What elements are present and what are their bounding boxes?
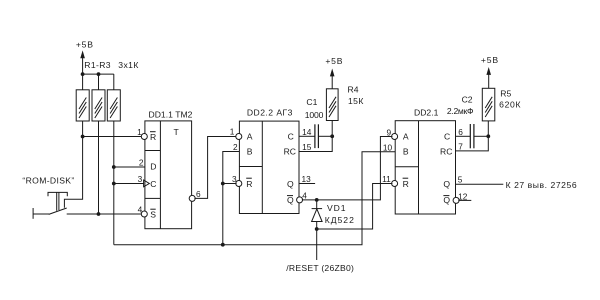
wire R1 top lead [82, 74, 84, 90]
svg-text:+5В: +5В [76, 39, 94, 49]
label S input (inverted) [150, 209, 156, 219]
svg-text:C: C [444, 132, 450, 142]
svg-text:4: 4 [302, 191, 307, 201]
svg-text:R: R [246, 179, 252, 189]
svg-text:Q: Q [443, 179, 450, 189]
svg-text:C: C [150, 179, 156, 189]
svg-text:3x1К: 3x1К [118, 60, 138, 70]
inversion circle DD2.1 pin 9 [392, 134, 398, 140]
svg-text:“ROM-DISK”: “ROM-DISK” [22, 176, 74, 186]
wire DD2.1 pin 5 Q output [456, 183, 504, 185]
svg-text:К 27 выв. 27256: К 27 выв. 27256 [506, 180, 578, 190]
svg-text:R5: R5 [500, 88, 511, 98]
wire DD2.2 pin 2 B down to bus [223, 152, 240, 245]
svg-text:5: 5 [458, 175, 463, 185]
push button SB1 ROM-DISK [33, 192, 67, 218]
svg-text:A: A [247, 132, 253, 142]
svg-text:VD1: VD1 [327, 203, 346, 213]
wire to DD1.1 pin 1 [83, 136, 143, 138]
monostable DD2.2 body [239, 121, 299, 213]
wire DD2.2 pin 4 Q to DD2.1 pin 9 [302, 137, 393, 200]
wire bottom bus [114, 152, 395, 245]
svg-text:C2: C2 [462, 94, 473, 104]
label R input (inverted) [246, 178, 252, 189]
svg-text:B: B [403, 147, 409, 157]
inversion circle DD1.1 pin 6 [189, 195, 195, 201]
svg-text:DD2.1: DD2.1 [414, 108, 439, 118]
svg-text:DD1.1 ТМ2: DD1.1 ТМ2 [149, 110, 193, 120]
resistor R4 [326, 89, 338, 121]
node junction B-vertical / bus [221, 243, 225, 247]
svg-text:6: 6 [458, 127, 463, 137]
svg-text:A: A [403, 132, 409, 142]
node junction B-vertical / R wire [221, 182, 225, 186]
svg-text:RC: RC [440, 147, 452, 157]
wire R4 bottom lead [331, 121, 333, 137]
svg-text:3: 3 [138, 174, 143, 184]
svg-text:+5В: +5В [481, 55, 499, 65]
svg-text:/RESET (26ZВ0): /RESET (26ZВ0) [286, 263, 354, 273]
svg-text:Q: Q [287, 179, 294, 189]
wire button to DD1.1 pin 4 S [67, 213, 143, 215]
svg-text:7: 7 [458, 142, 463, 152]
svg-text:13: 13 [302, 174, 312, 184]
svg-text:C: C [288, 132, 294, 142]
wire DD2.1 pin 7 RC [456, 136, 489, 151]
node junction diode / reset / pin11 [315, 227, 319, 231]
wire R1 bottom lead down to button [64, 121, 82, 208]
svg-text:R: R [403, 179, 409, 189]
wire C1 to RC node [318, 135, 332, 137]
wire +5V top rail [83, 73, 114, 75]
svg-text:10: 10 [383, 142, 393, 152]
capacitor C2 [470, 124, 474, 148]
wire R2 bottom lead [98, 121, 100, 214]
label C clock input with dynamic triangle [144, 179, 157, 189]
label R input (inverted) [403, 178, 409, 189]
node junction C1/R4/pin15 [330, 134, 334, 138]
resistor R2 [92, 90, 105, 121]
svg-text:B: B [247, 147, 253, 157]
svg-text:9: 9 [386, 127, 391, 137]
wire DD1.1 pin 2 D [114, 166, 145, 168]
svg-text:R1-R3: R1-R3 [84, 60, 111, 70]
inversion circle DD2.1 pin 11 [392, 181, 398, 187]
wire R3 top lead [113, 74, 115, 90]
node junction C2/R5/pin7 [486, 134, 490, 138]
wire C2 to RC node [474, 135, 488, 137]
label Q-bar output [287, 195, 294, 205]
svg-text:C1: C1 [306, 97, 317, 107]
inversion circle DD1.1 pin 1 [141, 134, 147, 140]
node junction R1 top [81, 72, 85, 76]
svg-text:Q: Q [287, 195, 294, 205]
capacitor C1 [315, 124, 319, 148]
wire DD2.1 pin 6 to C2 [456, 135, 471, 137]
svg-text:15К: 15К [348, 96, 364, 106]
wire DD2.2 pin 14 to C1 [299, 135, 315, 137]
svg-text:2: 2 [233, 142, 238, 152]
svg-text:14: 14 [302, 127, 312, 137]
resistor R5 [482, 88, 495, 121]
diode VD1 [312, 200, 323, 260]
svg-text:Q: Q [443, 195, 450, 205]
inversion circle DD2.2 pin 4 [297, 197, 303, 203]
wire R5 bottom lead [487, 121, 489, 136]
svg-text:КД522: КД522 [325, 215, 355, 225]
node junction R3 / D wire [112, 165, 116, 169]
wire DD1.1 pin 6 to DD2.2 pin 1 [194, 137, 236, 199]
inversion circle DD1.1 pin 4 [141, 211, 147, 217]
svg-text:1: 1 [230, 126, 235, 136]
inversion circle DD2.2 pin 3 [236, 181, 242, 187]
wire R2 top lead [98, 74, 100, 90]
svg-text:1000: 1000 [305, 110, 324, 120]
monostable DD2.1 body [395, 121, 455, 214]
wire DD2.1 pin 12 Q stub [458, 199, 471, 201]
svg-text:2.2мкФ: 2.2мкФ [447, 106, 474, 116]
svg-text:RC: RC [284, 147, 296, 157]
power +5V symbol middle [325, 56, 343, 89]
svg-text:T: T [174, 127, 180, 137]
node junction R2 / S wire [97, 212, 101, 216]
svg-text:S: S [150, 210, 156, 220]
node junction R1 / DD1.1 pin1 [81, 135, 85, 139]
svg-text:11: 11 [382, 174, 391, 184]
wire DD1.1 pin 3 C [114, 183, 144, 185]
resistor R3 [107, 90, 120, 121]
svg-text:DD2.2 АГ3: DD2.2 АГ3 [247, 108, 293, 118]
wire DD2.2 pin 13 Q stub [299, 183, 315, 185]
wire R3 bottom lead [113, 121, 115, 245]
svg-text:+5В: +5В [325, 56, 343, 66]
svg-text:R4: R4 [348, 85, 359, 95]
svg-text:620К: 620К [499, 100, 521, 110]
power +5V symbol right [481, 55, 499, 88]
flip-flop DD1.1 body [145, 121, 192, 229]
label Q-bar output [443, 195, 450, 205]
svg-text:D: D [150, 162, 156, 172]
node junction R3 / C wire [112, 182, 116, 186]
svg-text:15: 15 [302, 142, 312, 152]
node junction R2 top [97, 72, 101, 76]
svg-text:2: 2 [139, 158, 144, 168]
power +5V symbol left [76, 39, 94, 74]
node junction Q4 / diode [315, 198, 319, 202]
wire DD2.1 pin 11 R [317, 184, 393, 230]
wire DD2.2 pin 3 R [223, 183, 237, 185]
resistor R1 [76, 90, 89, 121]
inversion circle DD2.2 pin 1 [236, 134, 242, 140]
wire DD2.2 pin 15 RC [299, 136, 332, 151]
inversion circle DD2.1 pin 12 [453, 197, 459, 203]
svg-text:R: R [150, 132, 156, 142]
svg-text:6: 6 [196, 189, 201, 199]
label R input (inverted) [150, 132, 156, 143]
